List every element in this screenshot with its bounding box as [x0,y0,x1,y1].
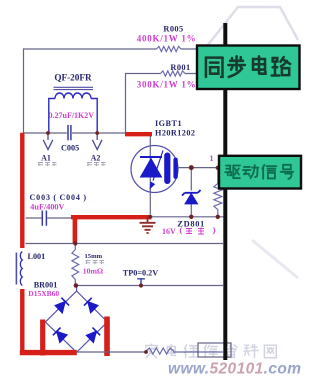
wire bus line mid [26,243,224,245]
wire bridge left red bar [40,320,45,356]
svg-text:15mm: 15mm [85,253,103,260]
svg-text:R005: R005 [163,25,183,34]
svg-text:A1: A1 [41,154,51,163]
watermark diagonal bottom right [252,240,298,278]
test point marker [137,279,145,285]
bridge diode lower-right [86,328,100,343]
svg-text:H20R1202: H20R1202 [155,128,195,137]
sync circuit box (同步电路) [197,46,300,90]
inductor QF-20FR core lines [54,87,94,89]
watermark text row (placeholder, glyphs appended later) [146,344,276,358]
inductor QF-20FR coil [49,93,97,132]
wire gate line [178,167,220,169]
bridge diode upper-right [84,298,98,313]
svg-text:10mΩ: 10mΩ [83,266,103,275]
wire left rail red upper [20,133,24,248]
ground [140,217,156,233]
inductor L001 coil [20,252,22,286]
transistor IGBT1 circle [131,146,178,193]
inductor choke 10mH (vertical zigzag) [72,244,79,286]
bridge BR001 diamond [45,286,107,353]
svg-text:BR001: BR001 [34,280,58,289]
svg-text:1: 1 [210,154,214,163]
resistor gate (vertical) [214,168,222,217]
svg-text:A2: A2 [91,154,101,163]
wire R001 branch [126,74,199,133]
svg-text:4uF/400V: 4uF/400V [30,203,64,212]
wire emitter rail red highlight [71,215,152,219]
note under A2 [87,162,106,166]
terminal A2 arrow [92,133,102,150]
drive signal box (驱动信号) [219,156,301,189]
resistor R001 [161,71,186,76]
wire bridge right red bar [104,317,110,357]
watermark banner top right [207,7,298,46]
wire bus line lower [76,285,224,287]
svg-text:16V: 16V [162,227,176,236]
inductor L001 core [15,253,17,285]
wire collector-emitter vertical [149,136,151,217]
wire left rail vertical thin [23,48,25,133]
note gray [86,260,105,264]
wire left rail red lower [20,289,24,355]
svg-text:C005: C005 [61,144,79,153]
resistor R005 [157,46,182,51]
wire bottom AC line [77,351,146,353]
svg-text:L001: L001 [28,252,46,261]
wire collector red highlight [125,132,152,136]
wire emitter rail thin [152,216,225,218]
bridge diode upper-left [55,298,69,313]
svg-text:400K/1W 1%: 400K/1W 1% [137,33,197,43]
watermark url www.520101.com [168,361,301,376]
wire top rail horizontal [24,48,198,50]
note under A1 [38,162,57,166]
capacitor C003 [26,211,72,226]
wire red vertical to bus [73,216,78,244]
power line black vertical [223,23,227,360]
svg-text:QF-20FR: QF-20FR [54,73,92,83]
svg-text:TP0=0.2V: TP0=0.2V [123,269,158,278]
bridge diode lower-left [53,328,67,343]
svg-text:ZD801: ZD801 [177,219,205,228]
svg-text:300K/1W 1%: 300K/1W 1% [137,80,197,90]
wire bottom red horizontal [20,350,77,355]
zener diode ZD801 [182,168,201,217]
value 16V (optional) [162,227,215,236]
wire main node line [24,132,126,134]
connector box bottom right [198,343,231,357]
terminal A1 arrow [43,133,53,150]
svg-text:R001: R001 [170,63,190,72]
svg-text:D15XB60: D15XB60 [28,289,59,298]
capacitor C005 [68,125,71,140]
svg-text:IGBT1: IGBT1 [155,119,182,128]
svg-text:0.27uF/1K2V: 0.27uF/1K2V [49,111,95,120]
transistor IGBT1 internals [140,150,178,188]
svg-text:C003 ( C004 ): C003 ( C004 ) [30,193,87,202]
svg-text:www.520101.com: www.520101.com [168,361,301,376]
resistor bottom (current sense) [146,348,223,354]
